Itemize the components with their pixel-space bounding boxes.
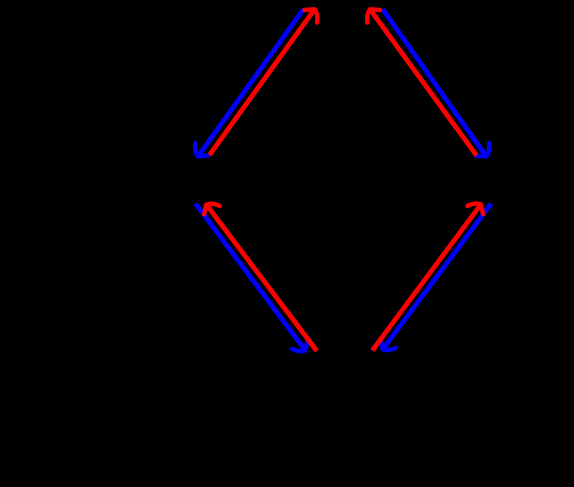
- blue arrow left to bottom: [196, 204, 308, 352]
- red arrow right to top: [367, 9, 476, 155]
- red arrow left to top: [210, 9, 318, 155]
- blue arrow right to bottom: [380, 204, 491, 351]
- red arrow bottom to left: [204, 204, 317, 351]
- red arrow bottom to right: [372, 204, 483, 351]
- blue arrow top to right: [383, 9, 490, 156]
- blue arrow top to left: [195, 9, 303, 156]
